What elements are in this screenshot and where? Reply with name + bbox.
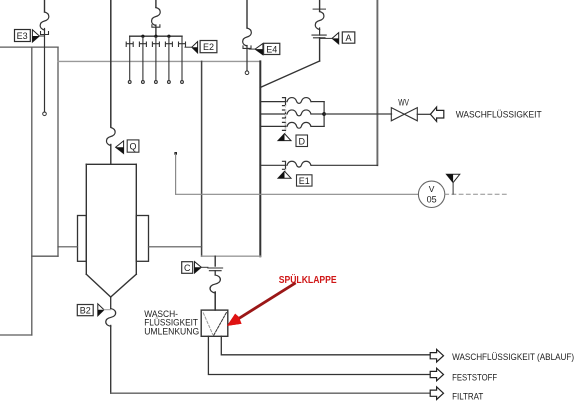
wire: connector flag C xyxy=(201,266,208,268)
wire: E3 stub xyxy=(44,29,46,35)
flex hose on vessel outlet xyxy=(106,309,116,327)
wire: flag stem at V05 xyxy=(452,183,454,195)
svg-text:FILTRAT: FILTRAT xyxy=(452,392,483,403)
svg-text:SPÜLKLAPPE: SPÜLKLAPPE xyxy=(279,273,337,286)
wire: A pipe below fitting xyxy=(319,38,321,61)
wire: outlet down to filtrate line xyxy=(110,326,112,394)
svg-text:UMLENKUNG: UMLENKUNG xyxy=(144,327,199,338)
flap position dashed right xyxy=(214,311,227,335)
pipe D1 xyxy=(260,98,324,106)
flag D (half-filled triangle apex up) xyxy=(278,134,291,141)
wire: E3 dip tube xyxy=(44,35,46,113)
wire: E4 stub xyxy=(246,46,248,49)
wire: to flap box xyxy=(214,292,216,310)
wire: flap box right outlet to ABLAUF arrow xyxy=(221,336,430,355)
wire: connector flag E2 xyxy=(185,46,192,48)
wire: FILTRAT line to arrow xyxy=(111,392,430,394)
column bottom edge xyxy=(202,255,261,257)
double union fitting on A line xyxy=(312,35,326,38)
wire: connector flag E4 xyxy=(249,48,255,50)
flex hose on Q line xyxy=(106,128,115,146)
svg-text:Q: Q xyxy=(129,142,136,152)
tick mark on A pipe xyxy=(313,8,325,10)
junction dot (measuring point) xyxy=(174,152,177,155)
label box E4 xyxy=(264,43,280,54)
spray drop pipe 1 with nozzle flange and open end xyxy=(126,36,133,83)
flag C (half-filled triangle pointing right) xyxy=(195,262,202,273)
union fitting on E3 line xyxy=(41,32,49,35)
union fitting on E2 feed xyxy=(152,25,160,27)
flag E1 (half-filled triangle apex up) xyxy=(278,171,291,178)
wire: bottom outlet of left structure to left margin xyxy=(0,334,32,336)
svg-text:E4: E4 xyxy=(266,44,277,54)
junction dot on wash water line xyxy=(322,112,326,116)
label box E3 xyxy=(15,30,31,42)
dashed signal line from V05 xyxy=(445,193,510,195)
wire: top edge of left structure xyxy=(0,46,58,48)
wire: from measuring point down xyxy=(175,154,177,194)
hollow arrow FESTSTOFF xyxy=(430,368,443,381)
label box D xyxy=(296,135,308,147)
hollow arrow WASCHFLUESSIGKEIT (ABLAUF) xyxy=(430,349,443,362)
wire: vessel outlet down xyxy=(110,297,112,309)
wire: E2 feed stub xyxy=(155,25,157,27)
left flange block of vessel xyxy=(78,216,87,262)
wire: horizontal to instrument V05 xyxy=(176,193,419,195)
wire: manifold header bar xyxy=(130,35,182,37)
wire: connector flag E3 to pipe xyxy=(39,35,44,37)
vessel top edge xyxy=(86,163,136,165)
svg-text:WASCHFLÜSSIGKEIT: WASCHFLÜSSIGKEIT xyxy=(456,110,542,121)
wire: left structure to left flange xyxy=(58,246,78,248)
label box E2 xyxy=(200,41,217,53)
vessel hopper right slope xyxy=(111,274,137,297)
wire: header line from left structure to column top right corner xyxy=(58,60,260,62)
wire: collector line of D pipes xyxy=(323,102,325,127)
vessel right wall xyxy=(135,164,137,274)
flex hose on E4 line xyxy=(243,28,252,46)
spray drop pipe 2 xyxy=(139,36,146,83)
svg-text:FESTSTOFF: FESTSTOFF xyxy=(452,372,497,383)
label box E1 xyxy=(297,175,313,186)
junction dot manifold 1 xyxy=(141,35,144,38)
dashed instrument line through D fittings xyxy=(285,106,287,133)
column right wall xyxy=(259,61,261,256)
valve WV (bowtie) xyxy=(391,108,417,121)
svg-text:A: A xyxy=(345,33,351,43)
wire: valve to inlet arrow xyxy=(417,113,430,115)
right flange block of vessel xyxy=(136,216,148,262)
label box A xyxy=(342,32,355,43)
hollow arrow FILTRAT xyxy=(430,387,443,400)
double union fitting C xyxy=(208,268,223,271)
label box B2 xyxy=(77,305,93,316)
flag E4 (half-filled triangle pointing left) xyxy=(255,44,263,55)
spray drop pipe 4 xyxy=(165,36,172,83)
red arrowhead shape xyxy=(227,314,242,326)
open end circle of E4 dip tube xyxy=(245,71,249,75)
union fitting on E4 line xyxy=(243,46,251,49)
wire: inner bottom of left structure xyxy=(32,255,58,257)
pipe D3 xyxy=(260,122,324,130)
dashed instrument line below E1 fitting xyxy=(285,169,287,171)
wire: E4 dip tube into column xyxy=(246,48,248,71)
flex hose on E3 line xyxy=(40,12,49,30)
svg-text:E1: E1 xyxy=(299,176,310,186)
flag E2 (half-filled triangle pointing left) xyxy=(192,42,198,53)
spray drop pipe 5 xyxy=(179,36,186,83)
svg-text:05: 05 xyxy=(427,194,437,204)
wire: below fitting xyxy=(214,271,216,275)
wire: tall vertical line from top to E1 level xyxy=(376,0,378,165)
wire: E4 pipe from top xyxy=(246,0,248,28)
wire: E2 feed pipe from top xyxy=(155,0,157,8)
wire: Q pipe lower part to vessel top xyxy=(110,145,112,165)
wire: A stub xyxy=(319,28,321,35)
vessel hopper left slope xyxy=(86,274,110,297)
flex hose on A line xyxy=(315,12,324,30)
column left wall xyxy=(201,61,203,256)
hollow inlet arrow pointing left xyxy=(430,107,443,121)
svg-text:B2: B2 xyxy=(80,306,91,316)
svg-text:C: C xyxy=(184,263,191,273)
svg-text:D: D xyxy=(298,136,305,146)
wire: connector flag A xyxy=(320,37,333,39)
wire: left wall of left structure xyxy=(31,47,33,335)
vessel left wall xyxy=(85,164,87,274)
flag B2 (half-filled triangle pointing right) xyxy=(98,304,104,316)
instrument circle V05 xyxy=(418,181,444,207)
wire: right wall of left structure xyxy=(57,47,59,256)
wire: column outlet down xyxy=(214,256,216,266)
wire: diagonal from A pipe to column xyxy=(260,61,319,88)
flag at V05 (half-filled triangle apex down) xyxy=(446,174,459,182)
svg-text:V: V xyxy=(429,184,435,194)
svg-text:WV: WV xyxy=(398,97,409,107)
label box Q xyxy=(127,140,139,152)
spray drop pipe 3 xyxy=(152,36,159,83)
svg-text:E3: E3 xyxy=(17,31,28,41)
flex hose on column outlet xyxy=(210,275,220,293)
svg-text:E2: E2 xyxy=(203,42,214,52)
wire: flap box left outlet to FESTSTOFF arrow xyxy=(208,336,430,374)
wire: E3 feed pipe from top xyxy=(44,0,46,12)
wire: wash water line from junction to valve xyxy=(324,113,391,115)
wire: E2 feed to manifold xyxy=(155,27,157,36)
label box C xyxy=(182,262,193,274)
wire: Q pipe from top xyxy=(110,0,112,127)
wire: right flange to column xyxy=(149,246,202,248)
junction dot manifold 3 xyxy=(167,35,170,38)
flag A (half-filled triangle pointing left) xyxy=(332,33,339,44)
svg-text:WASCHFLÜSSIGKEIT (ABLAUF): WASCHFLÜSSIGKEIT (ABLAUF) xyxy=(452,352,574,363)
flex hose on E2 feed xyxy=(152,8,161,26)
open end circle of E3 dip tube xyxy=(43,112,47,116)
flag Q (half-filled triangle pointing left) xyxy=(116,141,124,154)
wire: connector flag B2 xyxy=(104,309,111,311)
pipe D2 xyxy=(260,110,324,118)
flag E3 (half-filled triangle pointing right) xyxy=(32,30,39,42)
wire: A pipe from top xyxy=(319,0,321,12)
junction dot manifold 2 xyxy=(154,35,157,38)
flap position dashed left xyxy=(203,313,212,334)
